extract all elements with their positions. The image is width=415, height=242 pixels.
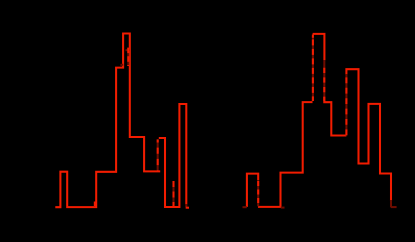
right panel: solid histogram (tall bar to tail) <box>346 69 391 201</box>
left panel: dark underlays beneath dashed segments <box>120 48 186 208</box>
right panel: solid histogram (descent after spike) <box>324 97 346 136</box>
left panel: bright dash segments <box>127 48 129 66</box>
left panel: dashed-line nub at step x=96 <box>94 202 96 207</box>
right panel: bright dash segments <box>312 35 314 102</box>
left panel: solid histogram (bump and right bar) <box>159 104 187 207</box>
right panel: dark underlays beneath dashed segments <box>243 36 397 208</box>
right panel: solid histogram (baseline and rise to plateau) <box>258 102 313 207</box>
right panel: solid histogram (left bar) <box>247 174 258 207</box>
left panel: solid histogram (main run) <box>55 34 160 208</box>
right panel: spike top (solid part) <box>313 34 325 60</box>
